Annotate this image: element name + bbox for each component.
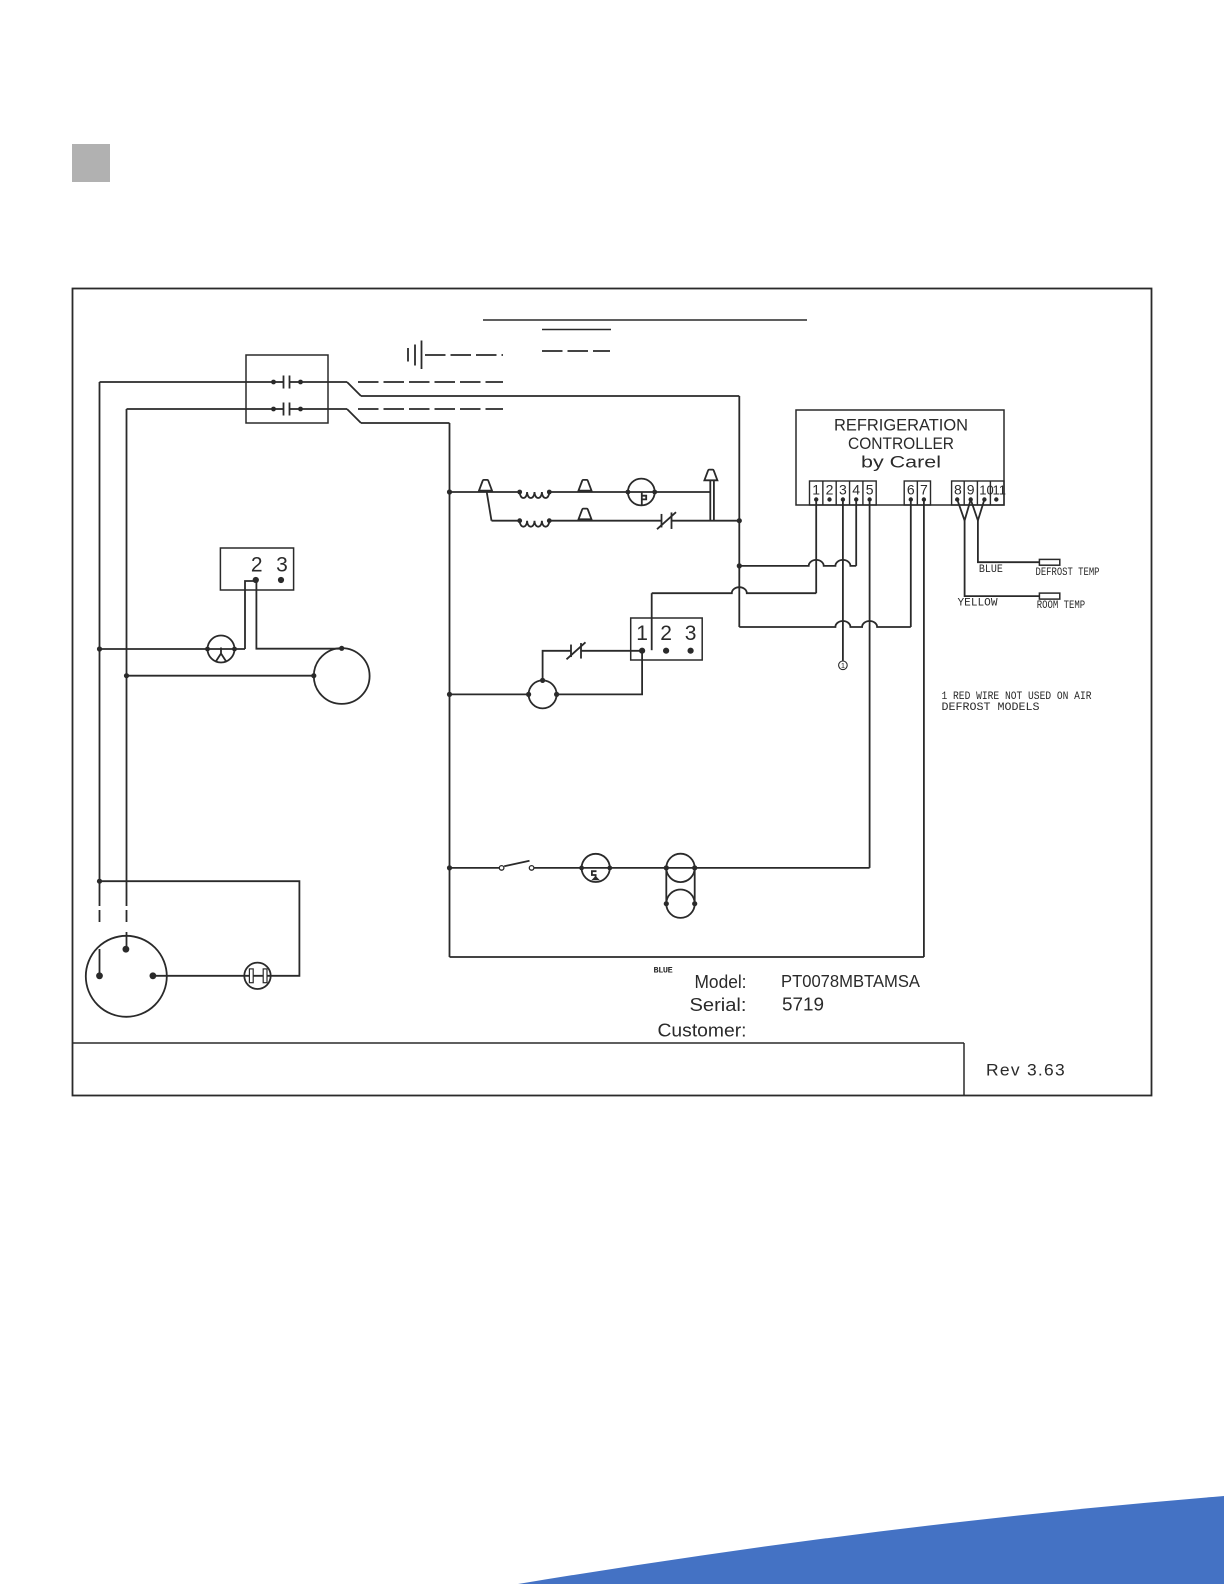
svg-text:2: 2: [660, 622, 672, 645]
svg-text:PT0078MBTAMSA: PT0078MBTAMSA: [781, 971, 920, 991]
switch blade: [504, 861, 529, 867]
junction dot relay row: [124, 673, 129, 678]
junction dot fan row1: [447, 489, 452, 494]
wire down to box123 dot1: [651, 593, 653, 650]
terminal labels 8-11: [954, 482, 1006, 498]
wire top short line: [542, 329, 611, 331]
dashed line upper: [542, 350, 610, 352]
svg-text:11: 11: [992, 483, 1006, 498]
wire fan row1 b: [549, 491, 628, 493]
svg-text:5719: 5719: [782, 994, 824, 1015]
switch contact circles: [499, 866, 534, 871]
wire L2 into box: [127, 408, 274, 410]
wire terminal7 vertical: [923, 499, 925, 957]
svg-text:ROOM TEMP: ROOM TEMP: [1037, 600, 1086, 612]
relay circle: [314, 648, 370, 704]
wire fan row2 c: [672, 520, 740, 522]
wire L2 out of box: [301, 408, 348, 410]
contact pair row1: [271, 376, 303, 389]
dashed line from plug: [425, 354, 503, 356]
yellow sensor wire: [965, 521, 1040, 597]
svg-text:1: 1: [636, 622, 648, 645]
relay left terminal dot: [311, 673, 316, 678]
terminal dots 8-11: [955, 497, 999, 501]
terminal T4: [579, 509, 592, 520]
wire fan row2 a: [492, 520, 520, 522]
defrost temp sensor: [1039, 559, 1059, 565]
svg-text:BLUE: BLUE: [979, 564, 1003, 576]
svg-text:2: 2: [251, 554, 263, 577]
wire evap top to cutout: [543, 651, 571, 681]
wire terminal4 vertical: [855, 499, 857, 566]
wire terminal3 vertical: [842, 499, 844, 661]
wire left vertical L2 into compressor: [126, 932, 128, 949]
wire terminal1 vertical: [815, 499, 817, 593]
terminal labels 6-7: [907, 482, 928, 498]
terminal strip 8-11: [952, 481, 1004, 505]
svg-text:3: 3: [276, 554, 288, 577]
coil row2: [517, 518, 551, 526]
svg-text:4: 4: [852, 482, 860, 498]
wire stat to heaters: [610, 867, 667, 869]
wire cutout to box123: [581, 650, 642, 652]
lamp glyph: [216, 648, 226, 662]
svg-text:by Carel: by Carel: [861, 453, 941, 472]
power plug symbol: [408, 341, 422, 370]
outer drawing border: [73, 289, 1152, 1096]
contact pair row2: [271, 403, 303, 416]
coil row1: [517, 490, 551, 498]
wire top long line: [483, 319, 807, 321]
wire left vertical L1: [99, 382, 101, 906]
svg-text:8: 8: [954, 482, 962, 498]
junction dot run-cap loop: [97, 879, 102, 884]
wire terminal1 to box123 with crossover: [652, 587, 817, 593]
wire mid vertical: [449, 423, 451, 957]
wire to lamp: [100, 648, 246, 650]
terminal dots 1-5: [814, 497, 872, 501]
wire heaters to terminal5: [695, 867, 870, 869]
junction dot switch row: [447, 865, 452, 870]
evap fan motor circle: [526, 678, 559, 709]
wire fan row1 a: [450, 491, 520, 493]
disconnect prongs: [710, 480, 714, 520]
run capacitor: [244, 963, 270, 989]
wire evap right to box123 dot1: [557, 651, 643, 695]
terminal box 2 3: [220, 548, 293, 590]
wire left vertical L1 dash segment: [99, 910, 101, 922]
title block divider line: [73, 1042, 965, 1044]
refrigeration controller box: [796, 410, 1004, 505]
defrost heater lower: [664, 890, 698, 918]
terminal dot 2: [663, 648, 669, 654]
wire right vertical from L1: [738, 396, 740, 627]
wire L1 into box: [100, 381, 274, 383]
svg-text:1: 1: [812, 482, 820, 498]
terminal dot 1: [639, 648, 645, 654]
wire T1 diagonal to row2: [487, 491, 492, 521]
plug connector box: [246, 355, 328, 423]
wire to terminal4 with crossovers: [739, 560, 856, 566]
svg-text:Model:: Model:: [695, 971, 747, 992]
svg-text:3: 3: [685, 622, 697, 645]
wire L1 diagonal: [347, 382, 361, 396]
title block vertical divider: [963, 1043, 965, 1096]
svg-text:YELLOW: YELLOW: [958, 598, 998, 610]
lamp circle: [208, 636, 235, 663]
wire L2 horizontal: [361, 422, 450, 424]
wire to switch: [450, 867, 500, 869]
svg-text:CONTROLLER: CONTROLLER: [848, 434, 954, 453]
overload contact row2: [661, 514, 663, 528]
fan motor circle: [626, 479, 658, 506]
room temp sensor: [1039, 593, 1059, 599]
wire terminal5 vertical: [869, 499, 871, 868]
defrost stat circle: [579, 854, 612, 882]
blue sensor wire: [978, 521, 1040, 563]
blue decorative swoosh: [518, 1496, 1224, 1584]
wire left vertical L2 dash segment: [126, 910, 128, 922]
terminal dot 2: [253, 577, 259, 583]
fan motor glyph: [642, 492, 646, 505]
svg-text:BLUE: BLUE: [654, 966, 673, 976]
wire bottom return: [450, 956, 924, 958]
controller title text: [834, 416, 968, 472]
wire to evap fan: [450, 693, 529, 695]
junction dot lamp row: [97, 646, 102, 651]
dashed line row1: [358, 381, 503, 383]
terminal strip 6-7: [904, 481, 930, 505]
wire fan row1 c: [655, 491, 711, 493]
wire compressor to capacitor: [153, 975, 250, 977]
wire left vertical L1 into compressor: [99, 949, 101, 976]
sensor wire W terminal 8-9: [957, 500, 971, 521]
wire lamp up to box 23: [245, 581, 256, 649]
svg-text:1: 1: [841, 661, 845, 670]
dashed line row2: [358, 408, 503, 410]
terminal dot 3: [278, 577, 284, 583]
wire fan row2 b: [549, 520, 661, 522]
svg-text:2: 2: [826, 482, 834, 498]
wire to terminal6 with crossovers: [739, 621, 911, 627]
gray decoration square: [72, 144, 110, 182]
wire L1 out of box: [301, 381, 348, 383]
wire switch to stat: [534, 867, 581, 869]
note red wire: [942, 691, 1092, 714]
wire L2 diagonal: [347, 409, 361, 423]
terminal dots 6-7: [909, 497, 927, 501]
defrost stat glyph: [592, 871, 598, 879]
wire run-cap loop: [100, 881, 300, 976]
junction dot evap row: [447, 692, 452, 697]
red wire marker circled 1: [839, 661, 848, 670]
heater parallel links: [666, 868, 694, 904]
svg-text:REFRIGERATION: REFRIGERATION: [834, 416, 968, 435]
wire L1 horizontal to controller side: [361, 395, 739, 397]
svg-text:Rev 3.63: Rev 3.63: [986, 1062, 1066, 1080]
terminal box 1 2 3: [631, 618, 703, 660]
wire left vertical L2: [126, 409, 128, 906]
terminal dot 3: [688, 648, 694, 654]
compressor terminal dots: [96, 946, 156, 979]
svg-text:7: 7: [920, 482, 928, 498]
terminal labels 1-5: [812, 482, 873, 498]
sensor wire W terminal 9-10: [971, 500, 985, 521]
terminal strip 1-5: [810, 481, 877, 505]
thermal cutout: [570, 645, 572, 658]
svg-text:Serial:: Serial:: [690, 994, 747, 1015]
wire box23 down: [256, 580, 341, 649]
svg-text:DEFROST TEMP: DEFROST TEMP: [1036, 567, 1100, 579]
defrost heater upper: [664, 854, 698, 882]
wire terminal6 vertical: [910, 499, 912, 627]
terminal T2: [579, 480, 592, 491]
svg-text:5: 5: [866, 482, 874, 498]
lamp terminal dots: [205, 647, 237, 652]
svg-text:6: 6: [907, 482, 915, 498]
disconnect terminal T3: [704, 470, 717, 481]
relay top terminal dot: [339, 646, 344, 651]
svg-text:Customer:: Customer:: [658, 1020, 747, 1041]
svg-text:DEFROST MODELS: DEFROST MODELS: [942, 702, 1040, 714]
wire to relay: [127, 675, 314, 677]
junction dot: [737, 563, 742, 568]
svg-text:9: 9: [967, 482, 975, 498]
svg-text:3: 3: [839, 482, 847, 498]
terminal T1: [479, 480, 492, 491]
junction dot row2 right: [737, 518, 742, 523]
compressor motor circle: [86, 936, 167, 1017]
